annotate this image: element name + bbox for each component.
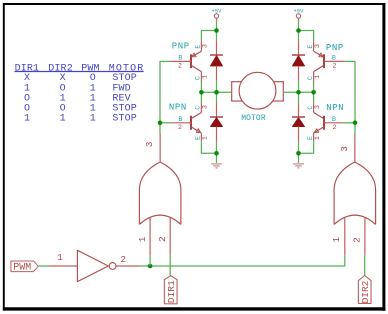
net flag DIR2 <box>358 276 371 304</box>
wire diode gap upper-left <box>216 80 218 92</box>
svg-text:1: 1 <box>137 236 148 242</box>
diode D4 lower-right freewheel <box>292 103 305 142</box>
wire +5V left drop <box>216 21 218 41</box>
wire DIR1 riser <box>169 255 171 275</box>
svg-text:3: 3 <box>144 142 155 148</box>
ground left <box>211 164 222 168</box>
svg-text:3: 3 <box>314 105 321 109</box>
svg-text:2: 2 <box>352 237 363 243</box>
motor M1 <box>232 72 284 123</box>
junction rail right A <box>311 90 316 95</box>
svg-text:1: 1 <box>60 113 66 124</box>
wire +5V right branch to PNP emitter <box>299 31 314 42</box>
junction rail left B <box>214 90 219 95</box>
svg-text:2: 2 <box>178 62 182 69</box>
ground right <box>293 164 304 168</box>
svg-text:2: 2 <box>157 236 168 242</box>
svg-text:NPN: NPN <box>169 102 187 112</box>
svg-text:1: 1 <box>331 236 342 242</box>
wire NPN collector left <box>200 92 202 102</box>
svg-text:1: 1 <box>314 136 321 140</box>
wire bottom bus to right gate <box>150 255 345 266</box>
net flag DIR1 <box>164 276 177 304</box>
wire base bus left <box>160 61 171 133</box>
transistor Q4 NPN right <box>307 102 345 141</box>
wire gnd stub right <box>298 153 300 163</box>
junction base bus left <box>158 121 163 126</box>
svg-text:3: 3 <box>339 146 350 152</box>
inverter U2 <box>49 250 140 281</box>
wire +5V right drop <box>298 21 300 41</box>
junction gnd node left <box>214 151 219 156</box>
svg-text:1: 1 <box>57 252 63 263</box>
wire diode gap lower-right <box>298 92 300 103</box>
junction gnd node right <box>296 151 301 156</box>
wire DIR2 riser <box>364 255 366 275</box>
svg-text:2: 2 <box>178 124 182 131</box>
svg-text:B: B <box>178 116 182 123</box>
svg-text:2: 2 <box>332 124 336 131</box>
wire gnd stub left <box>216 153 218 163</box>
transistor Q3 PNP right <box>307 41 345 81</box>
wire NPN base branch right <box>345 122 356 124</box>
wire rail right to motor <box>283 91 313 93</box>
svg-text:2: 2 <box>332 62 336 69</box>
wire rail left to motor <box>201 91 231 93</box>
transistor Q2 NPN left <box>169 102 209 141</box>
OR gate left U1A <box>137 134 181 256</box>
svg-text:3: 3 <box>314 44 321 48</box>
transistor Q1 PNP left <box>171 41 209 81</box>
svg-text:NPN: NPN <box>326 103 344 113</box>
svg-text:2: 2 <box>120 254 126 265</box>
svg-text:1: 1 <box>90 113 96 124</box>
svg-text:DIR1: DIR1 <box>166 280 177 303</box>
wire NPN collector right <box>313 92 315 102</box>
wire diode anode to gnd node right <box>298 142 300 153</box>
wire NPN base branch left <box>160 122 171 124</box>
junction inverter out <box>148 264 153 269</box>
svg-text:3: 3 <box>202 44 209 48</box>
svg-text:STOP: STOP <box>112 113 137 124</box>
diode D3 upper-right freewheel <box>292 40 305 80</box>
wire diode anode to gnd node left <box>216 142 218 153</box>
svg-text:1: 1 <box>24 113 30 124</box>
wire PWM to inverter <box>38 265 49 267</box>
svg-text:1: 1 <box>314 75 321 79</box>
truth table <box>15 63 145 124</box>
wire base bus right <box>345 61 356 133</box>
wire PNP collector to rail right <box>313 82 315 93</box>
svg-text:PWM: PWM <box>13 262 31 273</box>
wire gate1 input1 drop <box>149 255 151 266</box>
diode D2 lower-left freewheel <box>210 103 223 142</box>
svg-text:PNP: PNP <box>172 41 190 51</box>
junction +5V right <box>296 28 301 33</box>
+5V supply right <box>294 8 305 21</box>
svg-text:3: 3 <box>202 105 209 109</box>
diode D1 upper-left freewheel <box>210 40 223 80</box>
wire diode gap upper-right <box>298 80 300 92</box>
wire NPN emitter to gnd node left <box>201 141 216 153</box>
svg-text:1: 1 <box>202 75 209 79</box>
svg-text:1: 1 <box>202 136 209 140</box>
junction rail left A <box>199 90 204 95</box>
junction base bus right <box>353 121 358 126</box>
svg-text:MOTOR: MOTOR <box>241 114 266 123</box>
svg-text:B: B <box>178 55 182 62</box>
net flag PWM <box>11 261 38 273</box>
junction rail right B <box>296 90 301 95</box>
svg-text:B: B <box>332 55 336 62</box>
junction +5V left <box>214 28 219 33</box>
svg-text:PNP: PNP <box>326 43 344 53</box>
+5V supply left <box>212 8 223 21</box>
wire +5V left branch to PNP emitter <box>201 31 216 42</box>
wire PNP collector to rail left <box>200 82 202 93</box>
wire inverter out to junction <box>140 265 151 267</box>
OR gate right U1B <box>331 134 376 256</box>
wire NPN emitter to gnd node right <box>299 141 314 153</box>
svg-text:DIR2: DIR2 <box>360 280 371 303</box>
wire diode gap lower-left <box>216 92 218 103</box>
svg-text:B: B <box>332 116 336 123</box>
